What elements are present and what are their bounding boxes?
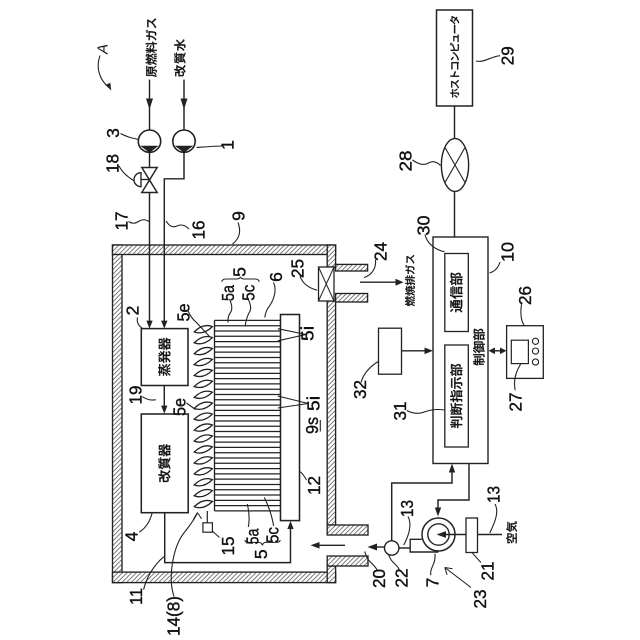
svg-text:1: 1 xyxy=(218,140,238,150)
svg-text:A: A xyxy=(95,44,112,55)
svg-text:13: 13 xyxy=(397,500,417,517)
svg-text:14(8): 14(8) xyxy=(164,596,184,636)
svg-text:32: 32 xyxy=(350,380,370,399)
svg-text:27: 27 xyxy=(506,393,526,412)
svg-text:11: 11 xyxy=(126,588,146,605)
svg-text:10: 10 xyxy=(498,242,518,262)
svg-text:3: 3 xyxy=(103,128,123,138)
svg-text:5c: 5c xyxy=(263,527,283,543)
svg-text:5e: 5e xyxy=(170,398,190,416)
svg-text:6: 6 xyxy=(266,272,286,282)
svg-text:5a: 5a xyxy=(243,528,263,544)
svg-text:31: 31 xyxy=(390,402,410,421)
svg-text:2: 2 xyxy=(123,306,143,316)
svg-text:21: 21 xyxy=(478,562,498,581)
svg-text:28: 28 xyxy=(396,151,416,172)
svg-text:5a: 5a xyxy=(218,285,238,301)
svg-text:23: 23 xyxy=(470,590,490,609)
svg-text:18: 18 xyxy=(103,154,123,173)
svg-text:20: 20 xyxy=(369,569,389,588)
svg-text:16: 16 xyxy=(189,221,209,240)
svg-text:15: 15 xyxy=(218,537,238,556)
svg-text:17: 17 xyxy=(112,212,132,231)
svg-text:9: 9 xyxy=(229,211,249,221)
svg-text:5: 5 xyxy=(251,549,271,559)
svg-text:24: 24 xyxy=(371,242,391,261)
svg-text:22: 22 xyxy=(392,569,412,588)
svg-text:26: 26 xyxy=(515,286,535,305)
svg-text:7: 7 xyxy=(423,578,443,588)
svg-text:5i: 5i xyxy=(298,326,318,341)
svg-text:5e: 5e xyxy=(174,304,194,322)
svg-text:13: 13 xyxy=(484,486,504,503)
svg-text:9s: 9s xyxy=(302,417,322,434)
svg-text:29: 29 xyxy=(498,46,518,65)
svg-text:30: 30 xyxy=(414,215,434,235)
svg-text:5: 5 xyxy=(230,267,250,277)
svg-text:5c: 5c xyxy=(238,284,258,300)
svg-text:4: 4 xyxy=(122,531,142,541)
svg-text:5i: 5i xyxy=(304,396,324,411)
svg-text:19: 19 xyxy=(126,386,146,405)
svg-text:12: 12 xyxy=(304,476,324,495)
svg-text:25: 25 xyxy=(288,259,308,278)
